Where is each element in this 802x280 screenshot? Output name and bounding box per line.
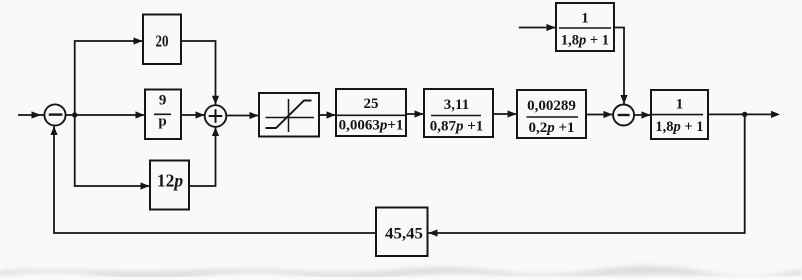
wire: output (708, 111, 780, 118)
block W4 1/(1.8p+1) top (556, 3, 614, 51)
bottom scan smudge (0, 266, 802, 279)
summing junction S1 (44, 104, 65, 125)
block 12p (150, 161, 189, 210)
wire: S3 to W5 (634, 111, 650, 118)
node A (72, 112, 77, 117)
svg-text:0,2p +1: 0,2p +1 (528, 120, 574, 136)
svg-text:45,45: 45,45 (385, 226, 423, 243)
svg-text:1,8p + 1: 1,8p + 1 (655, 119, 703, 135)
block W5 1/(1.8p+1) (651, 90, 708, 139)
svg-text:1: 1 (581, 11, 589, 27)
wire: 12p to S2 (189, 127, 219, 186)
wire: S1 to block 9/p (66, 111, 145, 118)
wire: node A down to block 12p (75, 115, 150, 190)
svg-text:p: p (158, 114, 166, 130)
svg-text:0,0063p+1: 0,0063p+1 (339, 118, 404, 134)
wire: 9/p to S2 (181, 111, 205, 118)
wire: W6 to S1 (50, 126, 376, 233)
block W2 3.11/(0.87p+1) (424, 89, 493, 137)
wire: input to S1 (18, 111, 45, 118)
svg-text:25: 25 (364, 96, 379, 112)
svg-text:3,11: 3,11 (444, 97, 469, 113)
wire: W4 to S3 (614, 28, 628, 105)
wire: saturation to W1 (319, 111, 336, 118)
saturation nonlinearity N1 (259, 93, 319, 137)
svg-text:20: 20 (156, 32, 169, 51)
block 9/p (145, 90, 181, 140)
wire: W1 to W2 (406, 110, 424, 117)
svg-text:0,87p +1: 0,87p +1 (430, 119, 484, 135)
block W1 25/(0.0063p+1) (336, 89, 406, 136)
svg-text:1,8p + 1: 1,8p + 1 (561, 33, 609, 49)
block W6 45,45 (376, 208, 428, 257)
svg-text:0,00289: 0,00289 (527, 98, 576, 114)
svg-text:9: 9 (159, 93, 167, 109)
wire: disturbance input to W4 (519, 24, 556, 31)
summing junction S2 (205, 105, 227, 127)
wire: block 20 to S2 (181, 41, 219, 105)
node B (742, 112, 747, 117)
svg-text:1: 1 (676, 97, 684, 113)
block W3 0.00289/(0.2p+1) (517, 90, 586, 138)
wire: S2 to saturation (226, 112, 258, 119)
wire: W2 to W3 (493, 110, 517, 117)
wire: node A up to block 20 (75, 37, 143, 115)
wire: W3 to S3 (586, 111, 613, 118)
summing junction S3 (613, 105, 634, 126)
wire: feedback from node B to W6 (429, 114, 745, 236)
svg-text:12p: 12p (157, 171, 184, 191)
block 20 (143, 15, 181, 65)
